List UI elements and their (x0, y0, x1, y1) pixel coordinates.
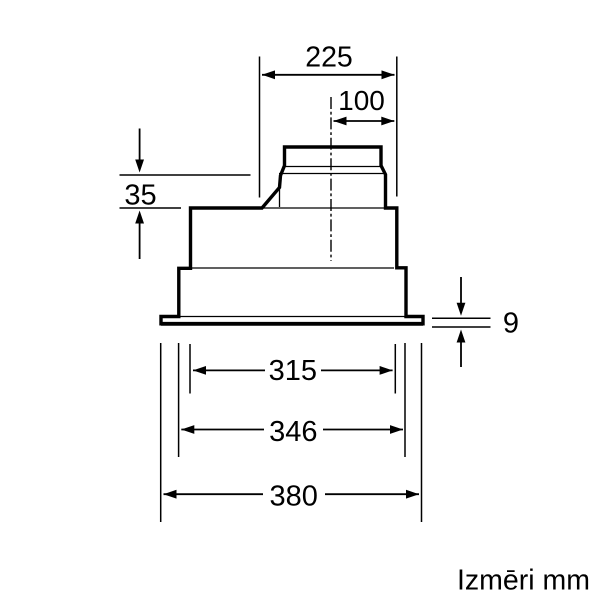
dim 315 line right (321, 369, 393, 371)
dim 346 arrow right (390, 425, 403, 434)
dim 225 extension line right (396, 57, 398, 197)
dim 380 line left (164, 493, 264, 495)
dim 225 arrow right (382, 70, 395, 79)
dim 380 extension line left (160, 343, 162, 522)
top surface hidden line (thin) (262, 207, 386, 209)
duct joint line lower (thin) (279, 173, 385, 175)
dim 35 ref line upper (120, 174, 251, 176)
dim 346 extension line right (404, 343, 406, 457)
dim 9 ref line lower (432, 326, 491, 328)
dim 346 extension line left (178, 343, 180, 457)
svg-text:Izmēri mm: Izmēri mm (457, 565, 590, 597)
flange top line (thin) (179, 316, 406, 318)
dim 315 line left (193, 369, 265, 371)
dim 346 arrow left (181, 425, 194, 434)
dim 35 arrow down (139, 129, 141, 161)
dim 315 arrow right (380, 366, 393, 375)
dim 346 line left (181, 429, 264, 431)
svg-text:315: 315 (269, 355, 317, 387)
dim 380 extension line right (421, 343, 423, 522)
flange bottom line (extra thick) (161, 322, 423, 326)
duct joint line upper (thin) (283, 166, 381, 168)
dim 380 line right (325, 493, 419, 495)
duct hidden left edge (thin) (279, 188, 281, 208)
dim 315 extension line right (394, 344, 396, 394)
dim 380 arrow right (406, 490, 419, 499)
dim 35 arrow up (139, 223, 141, 259)
svg-text:380: 380 (270, 481, 318, 513)
dim 9 arrow up (460, 343, 462, 368)
dim 100 line (334, 120, 395, 122)
hood body outline (thick) (161, 147, 423, 324)
dim 380 arrow left (164, 490, 177, 499)
dim 225 arrow left (262, 70, 275, 79)
svg-text:9: 9 (503, 307, 519, 339)
svg-text:346: 346 (269, 416, 317, 448)
dim 100 arrow right (381, 117, 394, 126)
body step line (thin) (191, 267, 395, 269)
dim 9 arrow down (460, 277, 462, 303)
dim 225 line (262, 74, 395, 76)
dim 100 arrow left (334, 117, 347, 126)
svg-text:100: 100 (338, 85, 385, 116)
center line (dash-dot) (330, 97, 332, 261)
dim 315 arrow left (193, 366, 206, 375)
svg-text:225: 225 (305, 41, 353, 73)
dim 35 ref line lower (120, 207, 182, 209)
svg-text:35: 35 (124, 179, 156, 211)
dim 315 extension line left (189, 344, 191, 394)
dim 9 ref line upper (432, 317, 491, 319)
dim 225 extension line left (259, 57, 261, 198)
dim 346 line right (323, 429, 403, 431)
